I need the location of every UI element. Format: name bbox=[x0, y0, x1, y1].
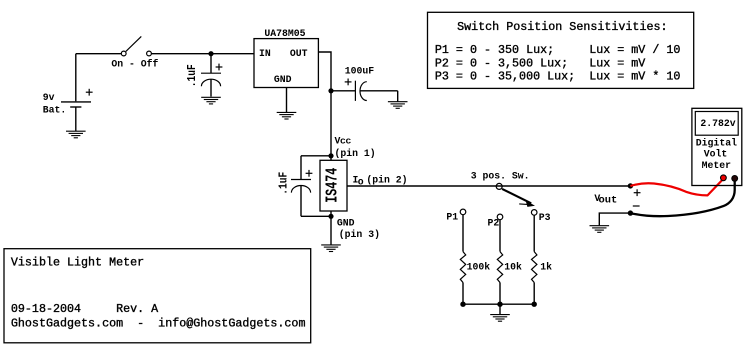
title box bbox=[4, 249, 311, 343]
wire R2 lead bottom bbox=[499, 283, 501, 305]
svg-text:Bat.: Bat. bbox=[43, 104, 67, 115]
svg-text:P3: P3 bbox=[539, 212, 551, 223]
svg-text:9v: 9v bbox=[43, 92, 55, 103]
contact P1 circle bbox=[460, 209, 466, 215]
ground under rail bbox=[490, 315, 510, 322]
wire R3 lead bottom bbox=[533, 283, 535, 305]
svg-text:P2 = 0 - 3,500 Lux; Lux = mV: P2 = 0 - 3,500 Lux; Lux = mV bbox=[435, 57, 645, 71]
wire P3 lead top bbox=[533, 215, 535, 252]
node junction dot at C1 bbox=[208, 51, 213, 56]
wire P2 lead top bbox=[499, 220, 501, 252]
wire switch to regulator IN bbox=[151, 53, 254, 55]
red probe wire bbox=[630, 180, 722, 196]
wire OUT to vertical rail bbox=[318, 52, 331, 160]
node junction dot Vcc bbox=[328, 153, 333, 158]
svg-text:.1uF: .1uF bbox=[185, 64, 199, 87]
black probe wire bbox=[630, 180, 734, 217]
wire regulator GND pin bbox=[286, 88, 288, 113]
svg-text:1k: 1k bbox=[540, 261, 552, 272]
contact P3 circle bbox=[531, 210, 537, 216]
capacitor C1 .1uF bbox=[201, 54, 222, 97]
wire IS474 bottom pin bbox=[330, 211, 332, 245]
svg-text:P1: P1 bbox=[446, 212, 458, 223]
meter display box bbox=[695, 112, 738, 136]
capacitor C2 100uF bbox=[331, 79, 398, 102]
ground under IS474 bbox=[321, 245, 341, 252]
wire bypass cap branch bottom bbox=[301, 215, 331, 217]
svg-text:out: out bbox=[599, 195, 618, 206]
resistor R2 10k bbox=[497, 252, 502, 283]
node dot Vout plus bbox=[628, 183, 633, 188]
svg-text:09-18-2004 Rev. A: 09-18-2004 Rev. A bbox=[11, 302, 159, 316]
svg-text:Digital: Digital bbox=[696, 138, 737, 149]
switch SW2 arrow to P3 bbox=[502, 189, 535, 207]
svg-text:P3 = 0 - 35,000 Lux; Lux = mV: P3 = 0 - 35,000 Lux; Lux = mV * 10 bbox=[435, 70, 680, 84]
svg-text:o: o bbox=[358, 177, 364, 188]
sensor U2 IS474 box bbox=[320, 160, 347, 211]
svg-text:(pin 1): (pin 1) bbox=[335, 148, 376, 159]
svg-text:10k: 10k bbox=[504, 261, 522, 272]
label plus probe bbox=[634, 189, 641, 196]
svg-text:GND: GND bbox=[274, 74, 292, 85]
svg-text:.1uF: .1uF bbox=[276, 172, 290, 195]
svg-text:GND: GND bbox=[337, 218, 355, 229]
regulator U1 UA78M05 box bbox=[254, 39, 318, 88]
svg-text:(pin 3): (pin 3) bbox=[339, 229, 380, 240]
meter M1 Digital Volt Meter box bbox=[692, 108, 742, 185]
note box Switch Position Sensitivities bbox=[428, 12, 694, 88]
resistor R3 1k bbox=[532, 252, 537, 283]
node rail dot left bbox=[460, 302, 465, 307]
wire P1 lead top bbox=[462, 215, 464, 252]
svg-text:P2: P2 bbox=[488, 217, 500, 228]
svg-text:IS474: IS474 bbox=[323, 168, 342, 203]
node rail dot middle bbox=[497, 302, 502, 307]
node rail dot right bbox=[532, 302, 537, 307]
wire Io output run bbox=[347, 185, 630, 187]
svg-text:Switch Position Sensitivities:: Switch Position Sensitivities: bbox=[457, 20, 667, 34]
resistor R1 100k bbox=[460, 252, 465, 283]
wire bottom rail bbox=[463, 303, 534, 305]
wire Vout lower bbox=[599, 213, 630, 225]
svg-text:On - Off: On - Off bbox=[111, 59, 158, 70]
node junction dot at 100uF tap bbox=[328, 88, 333, 93]
svg-text:Meter: Meter bbox=[702, 160, 732, 171]
label minus probe bbox=[633, 205, 640, 207]
svg-text:100k: 100k bbox=[467, 261, 491, 272]
svg-text:GhostGadgets.com - info@Ghos: GhostGadgets.com - info@GhostGadgets.com bbox=[11, 316, 306, 330]
svg-text:3 pos. Sw.: 3 pos. Sw. bbox=[471, 171, 530, 182]
contact P2 circle bbox=[497, 214, 503, 220]
battery B1 9v bbox=[61, 54, 93, 131]
capacitor C3 .1uF bbox=[291, 156, 312, 217]
svg-text:UA78M05: UA78M05 bbox=[264, 28, 305, 39]
wire battery top to switch bbox=[76, 53, 122, 55]
black probe dot bbox=[732, 176, 738, 182]
ground right of 100uF bbox=[388, 102, 408, 109]
svg-text:CC: CC bbox=[340, 138, 352, 146]
svg-text:Volt: Volt bbox=[704, 149, 728, 160]
svg-text:100uF: 100uF bbox=[345, 66, 375, 77]
wire bypass cap branch top bbox=[301, 155, 331, 157]
svg-text:P1 = 0 - 350 Lux; Lux = mV: P1 = 0 - 350 Lux; Lux = mV / 10 bbox=[435, 43, 680, 57]
svg-text:(pin 2): (pin 2) bbox=[366, 175, 407, 186]
switch SW1 On-Off bbox=[121, 36, 151, 55]
svg-text:2.782v: 2.782v bbox=[700, 118, 735, 129]
svg-text:IN: IN bbox=[259, 48, 271, 59]
node dot Vout minus bbox=[628, 210, 633, 215]
switch SW2 pole bbox=[496, 183, 502, 189]
svg-text:Visible Light Meter: Visible Light Meter bbox=[11, 256, 144, 270]
svg-text:OUT: OUT bbox=[290, 48, 308, 59]
wire R1 lead bottom bbox=[462, 283, 464, 305]
ground under C1 bbox=[201, 97, 221, 104]
node junction dot GND pin 3 bbox=[328, 214, 333, 219]
ground under battery bbox=[66, 131, 86, 138]
red probe dot bbox=[721, 175, 727, 181]
ground under Vout bbox=[590, 226, 610, 233]
wire rail ground stem bbox=[499, 304, 501, 314]
ground under regulator bbox=[277, 112, 297, 119]
